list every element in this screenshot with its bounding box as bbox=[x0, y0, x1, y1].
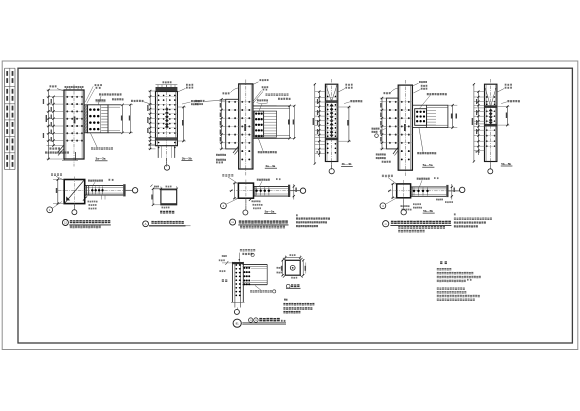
detail 4a-4a bottom gusset slope bbox=[216, 146, 239, 163]
splice node rib label bbox=[250, 286, 276, 294]
detail 4b-4b center web bolt stack bbox=[330, 104, 334, 138]
caption 22: connection description pair C bbox=[383, 221, 452, 233]
detail 3a-3a splice bolt group 3x4 (M24) bbox=[89, 108, 99, 130]
plan C beam with splice bolts bbox=[411, 187, 447, 196]
detail 3a-3a top label and leader bbox=[50, 85, 84, 91]
plan A column centerlines bbox=[58, 177, 131, 210]
detail 4a-4a column centerline bbox=[245, 80, 247, 177]
detail 3a-3a column centerline bbox=[73, 85, 75, 167]
caption 13: connection description pair A bbox=[62, 220, 110, 229]
detail 4a-4a ring plate label bbox=[258, 139, 277, 154]
detail 4a-4a top labels and leaders bbox=[223, 79, 269, 103]
plan C under-beam dimension marks bbox=[401, 203, 423, 210]
detail 3b-3b column shaft bbox=[156, 92, 178, 146]
detail 5b-5b left dimension chain bbox=[472, 83, 497, 163]
detail A gusset plate bbox=[161, 190, 177, 205]
svg-text:81: 81 bbox=[236, 322, 240, 326]
notes title shuo-ming bbox=[440, 261, 448, 264]
section label 3a-3a bbox=[95, 157, 108, 161]
caption: beam-column splice node title bbox=[233, 318, 286, 327]
plan C beam end plate and grid bubble bbox=[446, 185, 465, 197]
detail 4b-4b grid bubble bbox=[329, 162, 334, 174]
plan C grid bubble callout bbox=[380, 198, 396, 209]
svg-text:A: A bbox=[145, 222, 147, 226]
plan C column section box bbox=[397, 184, 411, 198]
detail 5a-5a left connection note with bubble bbox=[372, 128, 387, 138]
detail 4a-4a bolt spec label right bbox=[257, 93, 291, 112]
detail 4b-4b left dimension chain bbox=[313, 83, 338, 165]
detail 3b-3b column below joint bbox=[158, 146, 175, 158]
plan B axis bubble below column bbox=[243, 198, 248, 215]
plan B right dimension marks bbox=[293, 184, 297, 200]
detail 4b-4b weld funnel bbox=[326, 85, 337, 100]
detail 5a-5a column centerline bbox=[404, 80, 406, 177]
plan B gusset label bbox=[222, 174, 238, 183]
detail 4b-4b upper splice plate (hatched) bbox=[325, 100, 337, 103]
detail 5a-5a ring plate label bbox=[417, 128, 436, 154]
detail 4a-4a beam flanges bbox=[253, 106, 290, 138]
detail 3a-3a column shaft bbox=[64, 88, 84, 159]
plan A left dimension bbox=[53, 178, 64, 205]
detail 5a-5a top labels and leaders bbox=[384, 81, 447, 109]
detail 3a-3a ring plate label bbox=[91, 133, 114, 150]
splice node web plate bolts bbox=[235, 264, 240, 296]
detail 3b-3b grid bubble bbox=[164, 158, 169, 170]
detail 5b-5b center web bolt stack bbox=[489, 109, 493, 125]
detail 3a-3a weld hatch strip bbox=[84, 105, 88, 133]
drawing sheet outer border bbox=[2, 61, 578, 350]
plan A grid bubble callout 1 bbox=[47, 202, 62, 213]
section label 5b-5b (plan C) bbox=[423, 209, 435, 213]
section label 5b-5b (narrow C) bbox=[501, 162, 513, 166]
svg-text:5a—5a: 5a—5a bbox=[423, 163, 433, 167]
detail 3b-3b stiffener label top right bbox=[178, 84, 193, 92]
plan B left dimension bbox=[230, 182, 238, 199]
plan C right dimension marks bbox=[436, 184, 455, 203]
detail 5a-5a column bolt rows bbox=[401, 101, 410, 160]
detail 3b-3b bottom flange plate (hatched) bbox=[156, 137, 178, 140]
plan A gusset label bbox=[51, 173, 64, 179]
plan B column section box bbox=[238, 183, 253, 198]
detail 5b-5b weld funnel bbox=[485, 88, 496, 105]
detail 5a-5a bottom gusset slope bbox=[376, 147, 398, 163]
caption 24: connection description pair B bbox=[230, 219, 289, 228]
detail 4b-4b edge bolt rows bbox=[327, 96, 337, 154]
caption B side notes bbox=[296, 214, 330, 227]
detail 3a-3a bottom gusset slope bbox=[45, 145, 78, 160]
plan C bolt count label 7-M24 bbox=[417, 177, 439, 187]
plan A under-beam dimension marks bbox=[83, 195, 105, 209]
detail A top dimension line bbox=[150, 185, 178, 190]
svg-text:5b—5b: 5b—5b bbox=[501, 162, 511, 166]
detail 3a-3a column bolt group 4x7 bbox=[66, 96, 83, 142]
plan B under-beam dimension marks bbox=[249, 199, 263, 210]
detail 4b-4b column centerline bbox=[331, 79, 333, 170]
plan A bolt count label 7-M24 bbox=[88, 179, 114, 186]
plan C left dimension bbox=[388, 183, 397, 199]
splice node beam-end bolt group bbox=[244, 267, 251, 285]
plan B beam with splice bolts bbox=[254, 186, 289, 196]
detail 5b-5b edge bolt rows bbox=[486, 96, 496, 147]
plan B centerlines bbox=[230, 180, 300, 210]
section label 4a-4a bbox=[265, 164, 277, 168]
plan A beam end plate and grid bubble bbox=[123, 184, 138, 196]
svg-text:24: 24 bbox=[255, 320, 257, 322]
plan C axis bubble below column bbox=[401, 198, 406, 215]
detail 3a-3a beam flanges and right dimension 350 bbox=[108, 104, 133, 134]
svg-text:5b—5b: 5b—5b bbox=[423, 209, 433, 213]
section label 3b-3b bbox=[181, 156, 192, 160]
svg-text:3b—3b: 3b—3b bbox=[182, 156, 192, 160]
detail 3b-3b right dimension chain bbox=[177, 106, 186, 142]
detail 5b-5b grid bubble bbox=[488, 162, 493, 174]
detail 4a-4a beam web splice lines bbox=[264, 111, 277, 137]
splice node column flanges bbox=[232, 262, 244, 302]
detail 4b-4b bottom-left mark bbox=[317, 151, 321, 153]
detail 5b-5b right dimension 350 bbox=[497, 105, 510, 126]
splice node column below and grid bubble bbox=[231, 302, 245, 314]
detail 4a-4a column shaft bbox=[239, 84, 253, 169]
svg-text:4b—4b: 4b—4b bbox=[342, 162, 352, 166]
detail 3b-3b top beam flange (hatched) bbox=[156, 81, 178, 91]
detail 4a-4a column web mark bbox=[244, 124, 246, 131]
section label 5a-5a (elevation C) bbox=[422, 163, 434, 167]
detail A left dimension line bbox=[151, 189, 161, 206]
detail 5b-5b bottom-left mark bbox=[476, 151, 480, 153]
detail 5a-5a right dimension 350 bbox=[448, 104, 457, 129]
detail 3b-3b left dimension chain bbox=[147, 90, 177, 150]
detail 5a-5a column shaft bbox=[398, 85, 412, 170]
plan A beam with splice bolts bbox=[85, 186, 124, 195]
detail 3a-3a bolt spec labels top right bbox=[85, 84, 123, 105]
caption A: gusset plate note bbox=[143, 221, 191, 227]
detail 5a-5a splice plate with M24 bolts bbox=[415, 109, 427, 126]
detail 5b-5b column shaft bbox=[485, 84, 497, 161]
detail A bottom dimension marks bbox=[160, 207, 174, 214]
detail 3a-3a left dimension chain bbox=[43, 89, 84, 160]
detail 1 dimension lines bbox=[277, 254, 307, 278]
detail 5b-5b column centerline bbox=[490, 79, 492, 169]
detail 3b-3b left connection note bbox=[131, 100, 152, 105]
detail 5b-5b stiffener label top right bbox=[497, 84, 512, 92]
drawing sheet inner border bbox=[18, 68, 572, 343]
notes list bbox=[437, 268, 481, 301]
plan B grid bubble callout 4 bbox=[221, 199, 238, 209]
detail 4a-4a right dimension 350 bbox=[277, 105, 296, 140]
svg-text:4a—4a: 4a—4a bbox=[265, 164, 275, 168]
detail 4b-4b right dimension 350 bbox=[338, 106, 351, 143]
detail 3b-3b right connection note bbox=[182, 100, 200, 105]
detail 5a-5a column web mark bbox=[404, 124, 406, 131]
detail 5b-5b right connection note bbox=[501, 100, 520, 104]
title strip table (left margin) bbox=[5, 68, 15, 169]
svg-text:5a—5a: 5a—5a bbox=[265, 209, 275, 213]
detail 4b-4b stiffener label top right bbox=[338, 84, 352, 92]
detail 3a-3a beam splice plate bbox=[88, 105, 108, 133]
caption: detail 1 da-yang label bbox=[286, 284, 301, 288]
plan A column section (box with brace) bbox=[64, 180, 85, 204]
plan B bolt count label 7-M24 bbox=[257, 178, 281, 186]
detail 3a-3a beam web bolt lines bbox=[101, 108, 107, 131]
splice node left dimension marks bbox=[219, 255, 232, 282]
detail 5a-5a left connection plate bbox=[386, 98, 398, 149]
detail 4a-4a splice plate with M24 bolts bbox=[254, 111, 264, 137]
caption C side notes bbox=[454, 213, 492, 227]
plan B beam end plate and grid bubble bbox=[288, 185, 306, 197]
detail 5b-5b upper splice plate (hatched) bbox=[485, 105, 497, 108]
detail 4a-4a left plate bolt group bbox=[228, 101, 236, 144]
splice node top weld note bbox=[239, 249, 256, 262]
detail 3b-3b column centerline bbox=[166, 85, 168, 167]
detail 5a-5a left plate bolt group bbox=[389, 101, 397, 144]
plan A axis bubble below column bbox=[72, 205, 77, 215]
detail 4a-4a left dimension chain bbox=[220, 98, 253, 150]
detail 4a-4a left connection note bbox=[195, 100, 226, 105]
section label 4b-4b bbox=[341, 162, 353, 166]
plan C centerlines bbox=[388, 180, 458, 210]
splice node notes (zhu) bbox=[283, 299, 314, 314]
detail 1 (da-yang) square tube section bbox=[283, 258, 303, 278]
detail 5b-5b lower splice plate (hatched) bbox=[485, 124, 497, 127]
svg-text:3a—3a: 3a—3a bbox=[96, 157, 106, 161]
detail 5a-5a beam elevation bbox=[412, 105, 448, 127]
detail 3b-3b center web bolt stack bbox=[165, 107, 169, 129]
detail 4b-4b right connection note bbox=[344, 100, 362, 104]
detail 4b-4b column shaft bbox=[325, 84, 337, 161]
plan C gusset label bbox=[382, 175, 396, 184]
detail 4a-4a left connection plate bbox=[226, 99, 239, 149]
splice node beam (side view) bbox=[243, 264, 268, 284]
detail 3a-3a column web mark bbox=[74, 117, 76, 124]
detail 4b-4b lower splice plate (hatched) bbox=[325, 138, 337, 141]
detail 5a-5a beam web splice lines bbox=[427, 111, 436, 126]
detail 3b-3b edge bolt rows bbox=[158, 95, 176, 149]
detail 4a-4a column bolt rows bbox=[241, 101, 250, 160]
section label 5a-5a (plan B) bbox=[264, 209, 276, 213]
svg-text:20: 20 bbox=[250, 320, 252, 322]
detail 5a-5a left dimension chain bbox=[380, 97, 413, 150]
